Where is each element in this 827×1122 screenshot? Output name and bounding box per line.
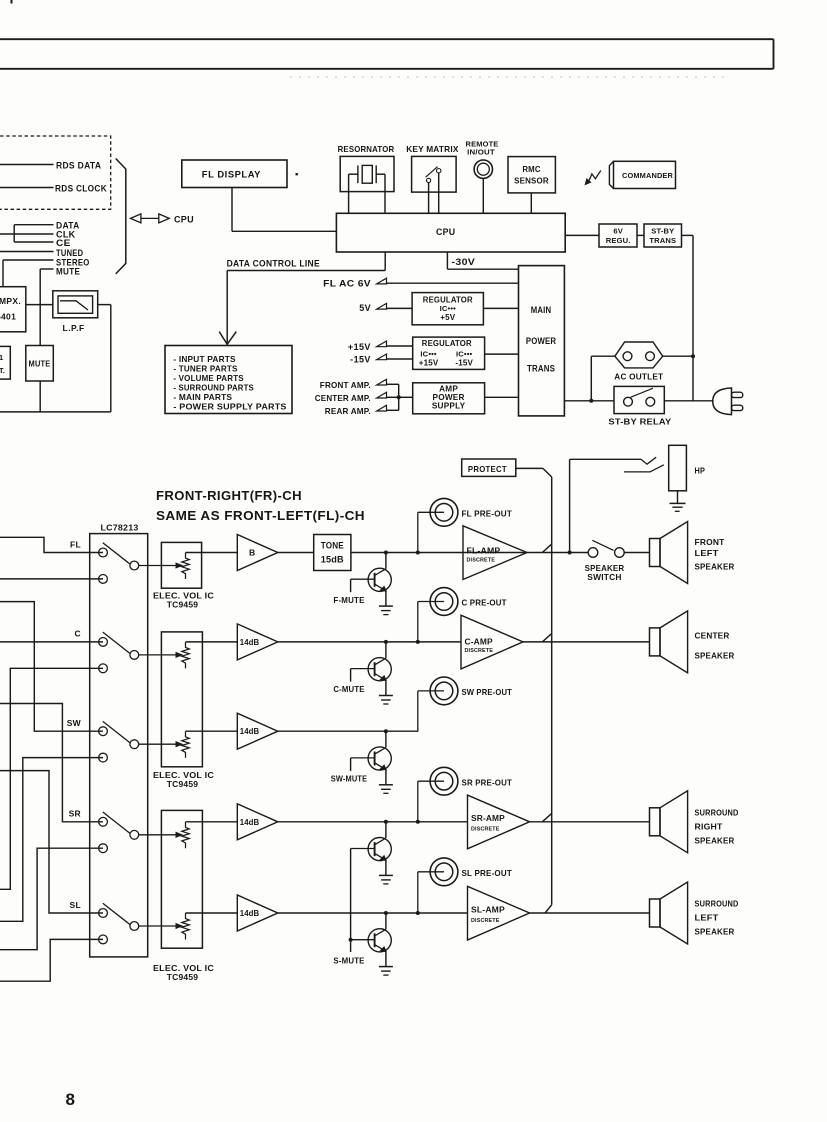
svg-text:SL: SL (70, 900, 81, 910)
svg-text:TC9459: TC9459 (167, 779, 199, 789)
svg-text:6V: 6V (613, 226, 623, 235)
svg-text:14dB: 14dB (240, 817, 259, 827)
svg-text:14dB: 14dB (240, 637, 259, 647)
svg-text:SWITCH: SWITCH (587, 572, 621, 582)
svg-text:LEFT: LEFT (695, 913, 720, 923)
svg-text:-30V: -30V (452, 257, 476, 267)
svg-text:KEY MATRIX: KEY MATRIX (406, 144, 459, 154)
svg-text:5V: 5V (359, 303, 371, 313)
svg-text:DISCRETE: DISCRETE (467, 558, 496, 564)
svg-text:RDS DATA: RDS DATA (56, 161, 101, 171)
svg-text:REGULATOR: REGULATOR (422, 339, 472, 348)
svg-text:-15V: -15V (455, 358, 473, 367)
svg-text:14dB: 14dB (240, 726, 259, 736)
svg-text:+15V: +15V (348, 342, 371, 352)
svg-text:SENSOR: SENSOR (514, 177, 549, 186)
svg-text:IC•••: IC••• (420, 349, 437, 358)
svg-text:FL DISPLAY: FL DISPLAY (202, 169, 261, 179)
svg-text:FL: FL (70, 539, 81, 549)
svg-text:COMMANDER: COMMANDER (622, 171, 673, 180)
svg-text:TRANS: TRANS (527, 364, 555, 374)
svg-text:C-MUTE: C-MUTE (333, 684, 364, 694)
svg-text:TRANS: TRANS (649, 236, 676, 245)
svg-text:SPEAKER: SPEAKER (695, 927, 735, 937)
svg-text:SUPPLY: SUPPLY (432, 402, 466, 411)
svg-text:DISCRETE: DISCRETE (465, 648, 494, 654)
svg-text:1: 1 (0, 353, 3, 362)
svg-text:SL PRE-OUT: SL PRE-OUT (462, 868, 513, 878)
svg-text:RIGHT: RIGHT (695, 822, 724, 832)
svg-text:CE: CE (56, 238, 71, 248)
svg-text:- TUNER PARTS: - TUNER PARTS (173, 364, 237, 374)
svg-text:CPU: CPU (436, 227, 455, 237)
svg-text:SAME AS FRONT-LEFT(FL)-CH: SAME AS FRONT-LEFT(FL)-CH (156, 508, 365, 523)
svg-text:RESORNATOR: RESORNATOR (338, 144, 395, 154)
svg-text:MUTE: MUTE (56, 267, 80, 277)
svg-text:FL PRE-OUT: FL PRE-OUT (462, 509, 513, 519)
svg-text:SR: SR (69, 809, 81, 819)
svg-text:REGULATOR: REGULATOR (423, 295, 473, 304)
svg-text:IC•••: IC••• (440, 304, 457, 313)
svg-text:F-MUTE: F-MUTE (333, 595, 364, 605)
svg-text:B: B (249, 548, 255, 558)
svg-text:RDS CLOCK: RDS CLOCK (55, 183, 107, 193)
svg-text:C-AMP: C-AMP (465, 637, 494, 646)
svg-text:CENTER AMP.: CENTER AMP. (315, 393, 371, 403)
svg-text:PROTECT: PROTECT (468, 464, 507, 474)
svg-text:POWER: POWER (526, 336, 557, 346)
svg-text:SPEAKER: SPEAKER (695, 561, 735, 571)
svg-text:S-MUTE: S-MUTE (333, 955, 364, 965)
svg-text:SL-AMP: SL-AMP (471, 906, 505, 915)
svg-text:C PRE-OUT: C PRE-OUT (462, 598, 508, 608)
svg-text:SW PRE-OUT: SW PRE-OUT (462, 687, 513, 697)
svg-text:15dB: 15dB (321, 554, 344, 564)
svg-text:SW-MUTE: SW-MUTE (331, 774, 368, 784)
svg-text:AC OUTLET: AC OUTLET (614, 372, 663, 381)
svg-text:FL AC 6V: FL AC 6V (323, 278, 371, 288)
svg-text:C: C (75, 629, 81, 639)
svg-text:T.: T. (0, 366, 5, 375)
svg-text:FRONT-RIGHT(FR)-CH: FRONT-RIGHT(FR)-CH (156, 488, 302, 503)
svg-text:SW: SW (67, 718, 82, 728)
svg-text:SURROUND: SURROUND (695, 899, 739, 909)
svg-text:FL-AMP: FL-AMP (467, 547, 501, 556)
svg-text:MPX.: MPX. (0, 296, 21, 306)
svg-text:TC9459: TC9459 (167, 972, 199, 982)
svg-text:IC•••: IC••• (456, 349, 473, 358)
svg-text:DATA CONTROL LINE: DATA CONTROL LINE (227, 258, 320, 268)
svg-text:SPEAKER: SPEAKER (695, 651, 735, 661)
svg-text:- MAIN PARTS: - MAIN PARTS (173, 392, 232, 402)
svg-text:HP: HP (695, 465, 706, 475)
svg-text:+15V: +15V (419, 358, 439, 367)
svg-text:- VOLUME PARTS: - VOLUME PARTS (173, 373, 244, 383)
svg-text:FRONT AMP.: FRONT AMP. (320, 380, 371, 390)
svg-text:REAR AMP.: REAR AMP. (325, 406, 371, 416)
svg-text:SR PRE-OUT: SR PRE-OUT (462, 777, 513, 787)
svg-text:-15V: -15V (350, 355, 371, 365)
svg-text:TC9459: TC9459 (167, 599, 199, 609)
svg-text:ST-BY RELAY: ST-BY RELAY (608, 418, 672, 427)
svg-text:CPU: CPU (174, 214, 194, 224)
svg-text:LEFT: LEFT (695, 548, 720, 558)
svg-text:SPEAKER: SPEAKER (695, 836, 735, 846)
svg-text:FRONT: FRONT (695, 537, 726, 547)
svg-text:+5V: +5V (440, 313, 456, 322)
svg-text:- SURROUND PARTS: - SURROUND PARTS (173, 383, 254, 393)
svg-text:REMOTE: REMOTE (466, 142, 499, 149)
svg-text:14dB: 14dB (240, 908, 259, 918)
svg-text:RMC: RMC (522, 165, 541, 174)
svg-text:LC78213: LC78213 (101, 523, 139, 533)
svg-text:L.P.F: L.P.F (63, 323, 85, 333)
svg-text:- POWER SUPPLY PARTS: - POWER SUPPLY PARTS (173, 402, 286, 412)
svg-text:MUTE: MUTE (29, 360, 51, 369)
svg-text:IN/OUT: IN/OUT (467, 149, 495, 156)
svg-text:SR-AMP: SR-AMP (471, 814, 505, 823)
svg-text:6401: 6401 (0, 312, 16, 322)
svg-text:TONE: TONE (321, 540, 344, 550)
svg-text:ST-BY: ST-BY (651, 226, 674, 235)
svg-text:MAIN: MAIN (531, 305, 552, 315)
svg-text:DISCRETE: DISCRETE (471, 827, 500, 833)
svg-text:CENTER: CENTER (695, 631, 730, 641)
svg-text:8: 8 (66, 1090, 75, 1109)
svg-text:DISCRETE: DISCRETE (471, 918, 500, 924)
svg-text:SURROUND: SURROUND (695, 808, 739, 818)
svg-text:REGU.: REGU. (606, 236, 631, 245)
svg-text:- INPUT PARTS: - INPUT PARTS (173, 354, 236, 364)
